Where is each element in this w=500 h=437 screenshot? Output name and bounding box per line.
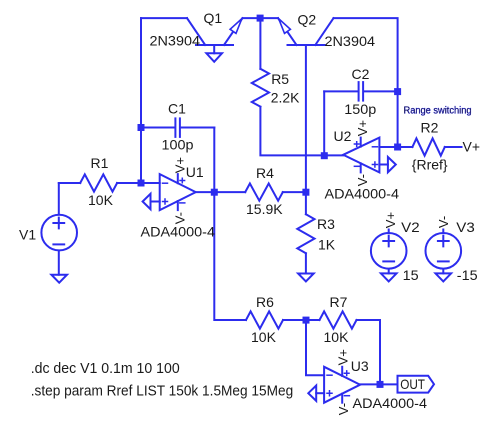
wire R1 to U1 [117,182,141,184]
transistor Q1 [187,18,243,53]
svg-text:V-: V- [173,212,188,224]
node F (U2 output / C2 left) [321,152,328,159]
node E (R4 / R3 / Q2 base) [302,189,309,196]
svg-text:V2: V2 [401,219,420,235]
wire R3 bottom [305,253,307,273]
node I (R6 / R7 / U3 minus) [303,317,310,324]
svg-text:R5: R5 [271,71,289,87]
svg-text:ADA4000-4: ADA4000-4 [353,395,428,411]
svg-text:2N3904: 2N3904 [325,33,376,49]
resistor R6 [246,311,283,328]
wire U3 plus input [316,392,324,394]
op-amp U2 (mirrored) [343,138,379,173]
capacitor C2 [324,82,397,101]
svg-text:1K: 1K [318,237,336,253]
wire V3 top stub [442,230,444,233]
svg-text:R7: R7 [330,294,348,310]
wire C1 right vertical [213,128,215,193]
ground (V3) [436,273,452,281]
ground (U3 plus input, rotated) [308,386,316,401]
ground (R3) [298,274,314,282]
svg-text:R4: R4 [256,165,274,181]
wire U1 minus input [141,182,160,184]
svg-text:R3: R3 [317,216,335,232]
resistor R4 [245,184,283,201]
svg-text:2.2K: 2.2K [271,89,300,105]
svg-text:Range switching: Range switching [404,104,472,116]
wire U1 out down to R6 [214,192,246,320]
svg-text:15.9K: 15.9K [246,201,283,217]
svg-text:U1: U1 [186,164,204,180]
svg-text:V-: V- [436,216,451,228]
ground (V2) [381,273,397,281]
wire C2 right vertical [397,91,399,147]
wire U2 plus input [379,164,388,166]
resistor R5 [252,69,269,107]
wire left vertical [140,18,142,183]
resistor R3 [297,214,314,253]
svg-text:V-: V- [336,403,351,415]
ground (U1 plus input, rotated) [143,194,151,209]
svg-text:10K: 10K [88,192,114,208]
node A (C1 left) [138,124,145,131]
svg-text:Q1: Q1 [204,10,223,26]
svg-text:V+: V+ [463,139,481,155]
wire U1 plus input [151,201,160,203]
wire U2 minus input [379,146,397,148]
wire node down to U3 minus [306,320,324,375]
wire node to R7 [306,319,320,321]
wire R7 right down to U3 out [357,320,381,384]
wire U3 output [360,383,397,385]
svg-text:10K: 10K [251,329,277,345]
wire C2 left vertical [323,91,325,155]
wire U1 out to R4 [214,191,245,193]
wire V2 bottom stub [388,269,390,273]
svg-text:C2: C2 [352,66,370,82]
svg-text:-15: -15 [457,267,478,283]
node H (U2 minus / R2) [394,144,401,151]
svg-text:R2: R2 [421,120,439,136]
wire R2 right to V+ label [445,146,462,148]
wire Q2 base vertical [305,45,307,192]
resistor R1 [80,174,117,191]
wire top-left horizontal [141,17,187,19]
resistor R7 [320,311,357,328]
voltage source V2 [371,233,407,269]
node J (U3 output / R7) [377,381,384,388]
wire top center [243,17,279,19]
svg-text:R1: R1 [91,155,109,171]
svg-text:V3: V3 [456,219,475,235]
wire top right [334,18,398,91]
svg-text:ADA4000-4: ADA4000-4 [141,224,216,240]
resistor R2 [412,138,444,155]
wire R3 top [305,192,307,214]
ground (U2 plus input, rotated right) [388,157,396,172]
svg-text:V+: V+ [173,157,188,173]
svg-text:.step param Rref LIST 150k 1.5: .step param Rref LIST 150k 1.5Meg 15Meg [31,383,294,399]
op-amp U1 [160,174,196,210]
svg-text:U3: U3 [351,358,369,374]
svg-text:R6: R6 [256,294,274,310]
svg-text:100p: 100p [162,136,194,152]
svg-text:{Rref}: {Rref} [412,156,448,172]
wire R5 drop [259,18,261,69]
svg-text:V+: V+ [383,212,398,228]
svg-text:10K: 10K [324,329,350,345]
wire V1 to R1 [59,182,80,184]
node B (R1 / U1 minus) [138,180,145,187]
svg-text:.dc dec V1 0.1m 10 100: .dc dec V1 0.1m 10 100 [31,361,180,377]
ground (V1) [51,275,67,283]
svg-text:15: 15 [403,267,419,283]
svg-text:V1: V1 [19,226,36,242]
wire U1 output [196,191,215,193]
output flag OUT [398,376,435,393]
node C (top center emitters) [257,15,264,22]
node D (U1 output) [211,189,218,196]
wire R4 to node [283,191,306,193]
svg-text:V+: V+ [336,349,351,365]
wire R6 to node [283,319,306,321]
svg-text:V-: V- [355,174,370,186]
svg-text:OUT: OUT [400,376,425,392]
node G (C2 right) [394,88,401,95]
op-amp U3 [324,367,360,403]
voltage source V3 [426,233,462,269]
ground (Q1 base) [206,53,222,62]
wire R2 left [398,146,413,148]
transistor Q2 [278,18,334,45]
svg-text:U2: U2 [334,128,352,144]
wire V3 bottom stub [442,269,444,273]
svg-text:2N3904: 2N3904 [150,33,201,49]
svg-text:Q2: Q2 [298,12,317,28]
wire V2 top stub [388,230,390,233]
svg-text:V+: V+ [355,120,370,136]
svg-text:ADA4000-4: ADA4000-4 [325,186,400,202]
capacitor C1 [141,118,214,136]
voltage source V1 [41,215,77,251]
wire V1 top [58,183,60,214]
wire V1 bottom [58,252,60,275]
wire R5 bottom to U2 output [260,107,343,156]
svg-text:C1: C1 [168,101,186,117]
svg-text:150p: 150p [344,101,376,117]
